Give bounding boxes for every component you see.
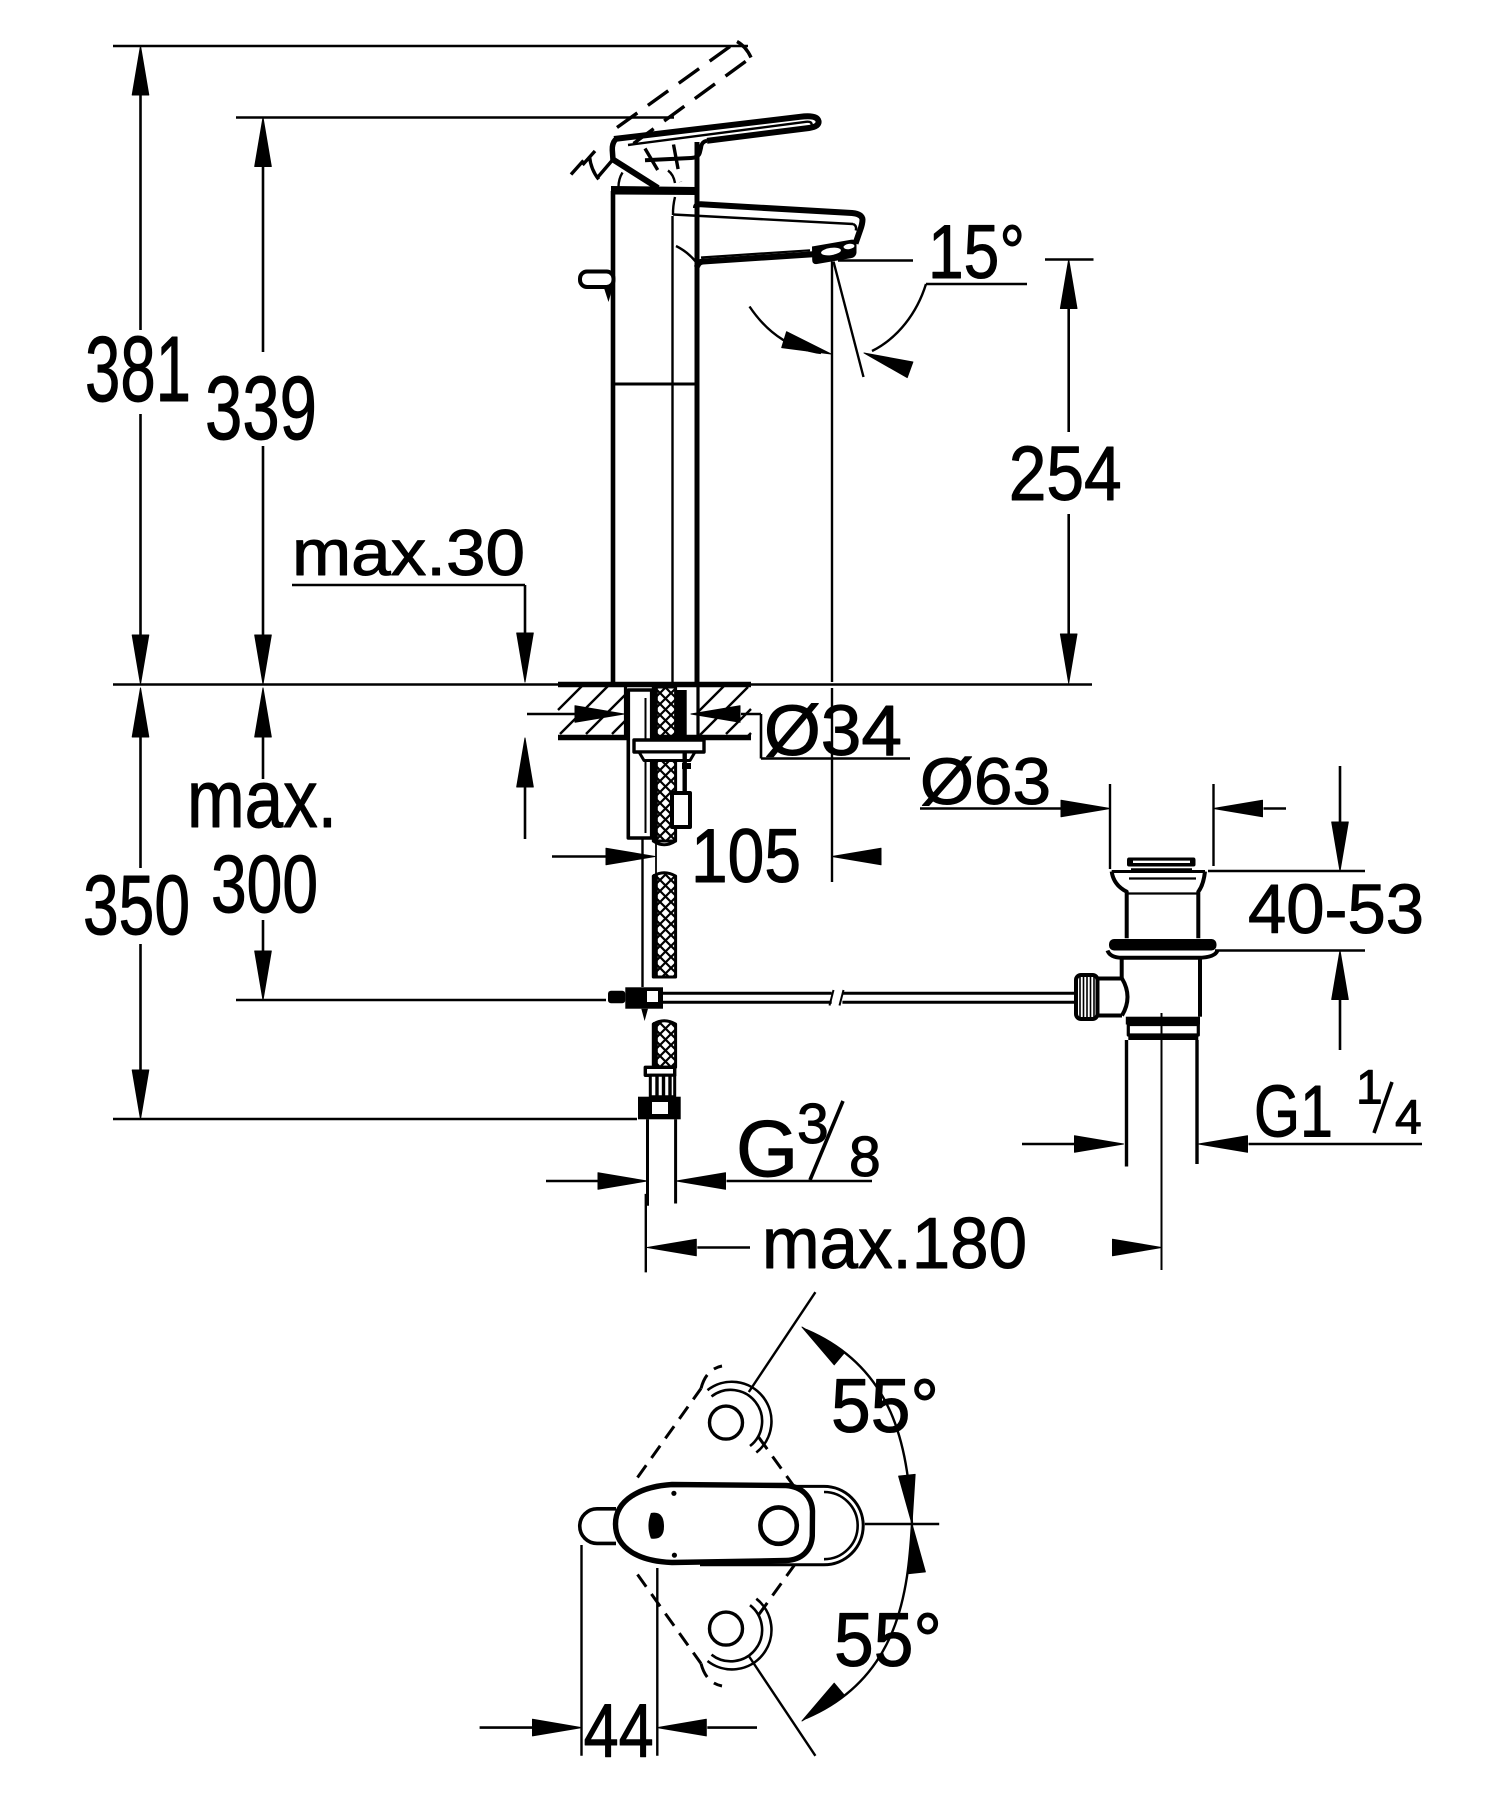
drain: push cap [1127,858,1196,870]
dimension max.30 (worktop thickness) [292,585,533,839]
dimension max.180 [646,1194,1162,1273]
55 deg upper arc arrow [797,1321,912,1524]
spout arm underside [697,254,813,267]
55 deg lower arc arrow [797,1524,912,1727]
shank: clamp bolt right [676,690,687,741]
svg-text:8: 8 [849,1125,881,1189]
rod to tee [641,838,643,987]
hose third segment [653,1021,675,1068]
drain: knurled knob [1076,975,1098,1019]
top view: ghost cap arcs upper [708,1382,772,1453]
spout arm top [696,204,863,243]
top view centerline right [865,1523,939,1525]
top view: cartridge circle [760,1507,796,1543]
dimension G3/8 [546,1173,872,1190]
svg-text:44: 44 [584,1689,654,1774]
hose centerline at break [655,839,657,874]
worktop bottom surface [558,735,751,741]
svg-text:G: G [736,1104,798,1193]
spout arm inner contour [673,197,856,231]
hose ribbed section [650,1075,674,1096]
55 deg bowtie arrows [899,1474,926,1573]
horizontal pop-up rod [663,990,1076,1006]
cartridge dome under handle [619,171,676,188]
handle dashed (open position) [571,42,751,183]
svg-text:Ø34: Ø34 [764,692,902,771]
hose coupling nut [638,1097,681,1120]
pop-up rod knob on faucet [580,272,614,303]
dimension 254 vertical [1045,260,1094,684]
svg-text:381: 381 [85,317,191,421]
svg-text:4: 4 [1395,1092,1422,1145]
worktop hatching right [698,686,751,736]
shank: clamp bolt left [628,690,651,838]
supply pipe G3/8 [648,1119,676,1205]
spout fillet [676,246,696,262]
svg-text:55°: 55° [834,1598,942,1683]
svg-text:max.180: max.180 [762,1204,1027,1284]
top view: lever [616,1485,813,1563]
15 deg slanted line [834,262,864,378]
aerator [812,240,857,264]
drain: flange skirt [1108,951,1218,958]
worktop top surface [113,683,1092,686]
15 deg left arc arrow [750,307,834,362]
handle base black band [611,186,697,195]
top view: base escutcheon [700,1486,863,1564]
top view: ghost hole lower [710,1612,743,1645]
top view: screw dots [671,1491,676,1496]
top view: ghost lever upper (dashed) [638,1366,807,1503]
dimension 44 [480,1545,757,1756]
top view: spout tab [580,1509,616,1544]
spout outlet vertical reference line [831,262,833,683]
15 deg right arc arrow [861,284,926,378]
spout underside inner line [701,250,810,257]
drain: lower band [1126,1017,1200,1025]
dimension 40-53 [1208,766,1365,1050]
svg-text:55°: 55° [831,1364,939,1449]
worktop hatching left [558,685,625,734]
svg-text:G1: G1 [1254,1072,1333,1153]
drain: flange [1112,872,1205,939]
svg-text:Ø63: Ø63 [920,744,1051,818]
handle lever solid [612,116,818,188]
extension line at hose nut (350 bottom) [113,1118,637,1121]
shank: pop-up rod vertical [672,751,691,827]
dimension max.300 vertical (below worktop) [255,688,272,1000]
drain centerline [1161,1013,1163,1270]
faucet column right edge [695,142,700,684]
extension line top (381 level) [113,45,748,48]
dimension 381 vertical [132,46,149,684]
top view: ghost cap arcs lower [708,1599,772,1670]
faucet body joint line [613,383,697,386]
extension line (339 level) [236,116,674,119]
top view: ghost hole upper [710,1406,743,1439]
drain: body [1122,958,1200,1017]
dimension 339 vertical [255,118,272,685]
pop-up tee joint [608,987,663,1021]
svg-text:350: 350 [83,858,190,952]
worktop hole edges [624,687,627,735]
top view: ghost lever lower (dashed) [638,1549,807,1686]
drain: rubber washer [1109,939,1217,951]
dimension 105 [552,848,881,865]
svg-text:339: 339 [205,359,317,459]
drain: tee stem [1098,979,1128,1016]
dimension diameter 63 [920,784,1286,869]
55 deg lower ext line [749,1656,816,1756]
hose lower segment [653,873,675,977]
svg-text:15°: 15° [928,210,1025,295]
label G 3/8 [736,1092,881,1193]
55 deg upper ext line [749,1292,816,1392]
svg-text:40-53: 40-53 [1248,870,1424,948]
dimension 350 vertical (below worktop) [132,688,149,1119]
top view: crescent mark [648,1513,664,1539]
svg-text:1: 1 [1356,1062,1383,1115]
15 degree leader lines [838,261,1027,285]
svg-text:254: 254 [1009,431,1122,517]
svg-text:max.: max. [187,754,337,845]
svg-text:max.30: max.30 [292,516,525,589]
drain: coupling nut [1128,1025,1198,1041]
svg-text:300: 300 [211,839,318,930]
extension line at rod level (max300 bottom) [236,999,606,1002]
drain: tailpipe [1127,1040,1198,1167]
label G1 1/4 [1254,1062,1422,1153]
hose collar [645,1067,674,1075]
shank: washer plate [634,740,704,761]
shank: braided hose through worktop [653,687,675,845]
svg-text:105: 105 [691,814,801,899]
dimension diameter 34 [527,706,910,759]
faucet column inner contour [671,216,673,684]
dimension G1 1/4 [1022,1136,1422,1153]
faucet column left edge [611,191,616,684]
